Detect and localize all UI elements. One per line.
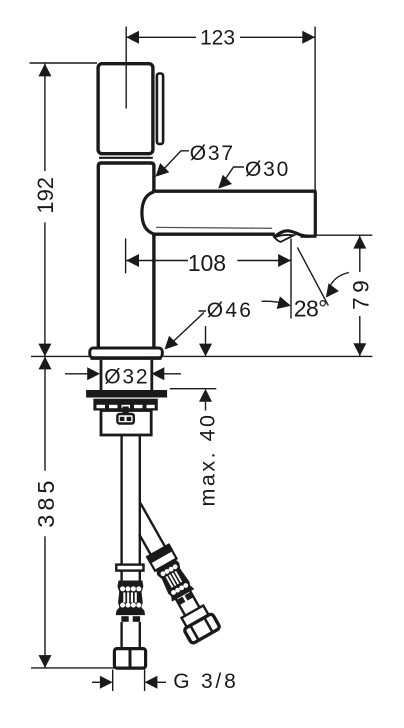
svg-text:max. 40: max. 40 — [195, 413, 219, 507]
dimension 123 right arrow — [302, 31, 315, 44]
shank left edge — [100, 360, 103, 390]
diagonal end collar — [182, 605, 209, 627]
angle arrow right curved — [330, 273, 350, 288]
dimension max40 bottom arrow — [199, 389, 212, 402]
svg-text:108: 108 — [188, 250, 226, 276]
dimension G3/8 left leader — [92, 681, 100, 683]
vertical hose upper right line — [139, 436, 141, 565]
leader O30 — [222, 167, 244, 184]
vertical hose neck — [122, 571, 140, 582]
vertical hose lower tube — [122, 622, 140, 647]
shank right edge — [150, 360, 153, 390]
body right edge below spout — [152, 235, 155, 350]
dimension 385 bottom arrow — [39, 655, 52, 668]
dimension 192 line — [44, 64, 46, 357]
dimension G3/8 right leader — [157, 681, 166, 683]
diagonal crimp sleeve — [150, 550, 176, 570]
angle arrow left — [262, 301, 285, 303]
svg-text:Ø32: Ø32 — [104, 365, 149, 388]
faucet body outline — [98, 163, 154, 349]
vertical hose upper left line — [120, 436, 122, 565]
mounting surface line left — [31, 355, 89, 357]
diagonal nut divider 2 — [204, 618, 212, 632]
extension line nut right — [144, 670, 146, 692]
spout end cap — [314, 191, 317, 236]
screw slot marks — [120, 417, 131, 421]
diagonal hose lower tube — [176, 591, 200, 616]
screw stub — [123, 407, 129, 414]
dimension 385 line — [44, 357, 46, 668]
dimension O32 left leader — [65, 373, 88, 375]
diagonal crimp cap — [146, 543, 173, 563]
svg-text:123: 123 — [200, 26, 235, 49]
spout junction bulge — [142, 192, 154, 234]
diagonal hex nut — [184, 613, 221, 644]
dimension 123 left arrow — [126, 31, 139, 44]
horseshoe bracket — [101, 411, 151, 436]
svg-text:79: 79 — [349, 276, 374, 310]
ring band below handle — [99, 157, 153, 159]
handle lever tab — [157, 74, 163, 145]
diagonal hose window fitting — [177, 592, 192, 604]
spray angle line 28 — [297, 247, 328, 305]
screw head box — [117, 414, 133, 424]
mounting washer bar — [86, 390, 167, 398]
dimension 79 bottom arrow — [353, 343, 366, 356]
hex nut G3/8 — [114, 649, 145, 669]
escutcheon — [90, 348, 163, 358]
diagonal hose left edge — [139, 534, 151, 554]
outlet sliver — [274, 235, 294, 242]
serration white dashes — [97, 405, 155, 408]
diagonal nut divider 1 — [191, 626, 199, 640]
braid white dots top — [120, 586, 141, 607]
mounting surface line right — [164, 355, 373, 357]
dimension 79 top arrow — [353, 236, 366, 249]
dimension 79 line — [359, 236, 361, 356]
svg-text:Ø46: Ø46 — [207, 299, 253, 322]
vertical hose lower fitting — [121, 616, 140, 622]
diagonal hose group — [119, 499, 220, 644]
dimension O32 right leader — [164, 373, 181, 375]
escutcheon bottom edge — [91, 357, 162, 360]
dimension max40 top arrow — [205, 326, 207, 344]
handle body — [98, 64, 153, 154]
outlet swoosh — [274, 231, 310, 238]
vertical hose crimp collar — [116, 565, 143, 571]
dimension 108 left arrow — [126, 254, 139, 267]
dimension 385 top arrow — [39, 357, 52, 370]
extension line nut left — [112, 670, 114, 692]
extension line hose end — [31, 667, 115, 669]
hex nut divider — [129, 649, 132, 668]
extension line 123 left — [125, 27, 127, 109]
extension line 108 left — [125, 238, 127, 273]
svg-text:G 3/8: G 3/8 — [173, 670, 238, 693]
svg-text:28°: 28° — [294, 296, 327, 322]
dimension O32 left arrow — [87, 367, 100, 380]
vertical hose braid — [117, 581, 145, 614]
spout top edge — [152, 189, 316, 192]
dimension 192 top arrow — [38, 64, 51, 77]
dimension G3/8 left arrow — [100, 676, 113, 689]
svg-text:Ø30: Ø30 — [245, 158, 290, 181]
diagonal braid white dots — [160, 564, 189, 596]
leader O46 — [169, 311, 206, 346]
dimension 108 right arrow — [278, 254, 291, 267]
extension line 123 right — [314, 27, 316, 191]
spout bottom edge right of outlet — [301, 235, 317, 238]
extension line spout bottom — [316, 234, 372, 236]
svg-text:192: 192 — [33, 177, 58, 214]
dimension 123 line — [126, 36, 315, 38]
spout bottom edge left of outlet — [152, 232, 275, 235]
diagonal braid — [156, 559, 194, 601]
dimension O32 right arrow — [152, 367, 165, 380]
max40 lower extension line — [170, 388, 217, 390]
extension line handle top — [30, 62, 98, 64]
leader O37 — [160, 151, 189, 173]
dimension 108 line — [126, 260, 291, 262]
dimension G3/8 right arrow — [145, 676, 158, 689]
diagonal hose right edge — [140, 503, 165, 547]
svg-text:385: 385 — [33, 476, 59, 527]
dimension 192 bottom arrow — [38, 344, 51, 357]
extension line outlet — [290, 239, 292, 319]
svg-text:Ø37: Ø37 — [190, 142, 235, 165]
serrated mounting nut — [93, 399, 157, 411]
spout underside cut line — [156, 226, 272, 229]
